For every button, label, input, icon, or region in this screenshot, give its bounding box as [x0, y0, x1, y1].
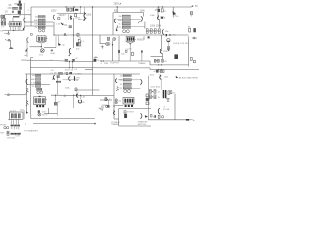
node dot x158.75 y7 — [158, 6, 159, 7]
ground J1 dark — [9, 48, 14, 49]
tube V2 right tab — [46, 38, 47, 40]
tube V11b curl right — [140, 79, 142, 84]
wire vertical x114 — [113, 74, 115, 119]
jack J1 dashes left — [5, 39, 6, 41]
resistor R12 — [75, 13, 77, 16]
tube socket S2 — [37, 35, 48, 48]
wire vertical x112.5 — [112, 41, 114, 62]
resistor RC4 — [35, 85, 40, 87]
svg-text:VOICE COIL RET.: VOICE COIL RET. — [173, 43, 190, 45]
tube socket S6 power — [8, 110, 24, 125]
tube V9 right tab — [46, 98, 47, 100]
tube socket V12 box — [123, 98, 134, 105]
wire right of V14 x24.1 — [23, 111, 25, 120]
svg-text:1M: 1M — [118, 16, 121, 18]
wire curl to stack — [118, 79, 123, 81]
svg-text:SWITCH: SWITCH — [138, 124, 147, 126]
tube V14 left-bottom tab — [8, 119, 9, 121]
resistor R50 wavy — [26, 88, 29, 93]
svg-text:5V: 5V — [195, 5, 198, 8]
resistor RC5 — [37, 88, 42, 90]
node dot x73.5 y35 — [73, 34, 74, 35]
node dot — [107, 99, 108, 100]
node dot x55.6 y95.2 — [55, 95, 56, 96]
node dot S2 pin — [41, 46, 42, 47]
tube socket S5 lower-mid — [123, 98, 134, 108]
capacitor CC4 round pair — [37, 91, 43, 94]
wire vertical x162.5 — [162, 53, 164, 59]
wire vertical x119 — [118, 36, 120, 61]
resistor stack B upper (x121.9-130.5 y15-33.5) — [118, 15, 145, 33]
resistor R10 dark — [73, 8, 75, 12]
wire x73.7 down — [73, 95, 75, 108]
wire y105.5 — [114, 105, 123, 107]
resistor RG4 — [154, 95, 156, 99]
wire plate line y13.7 — [57, 13, 86, 15]
svg-text:FUSE: FUSE — [0, 125, 6, 127]
svg-text:12AX7: 12AX7 — [59, 14, 67, 17]
wire grid line y22 — [25, 21, 54, 23]
resistor RG2 — [154, 90, 156, 94]
wire vertical x159.4 lower — [158, 19, 160, 28]
wire vertical x30 — [29, 58, 31, 114]
comp small A-mark — [64, 33, 66, 36]
tick above — [95, 56, 97, 58]
wire vertical x175 — [174, 94, 176, 120]
wire x108.3 stub — [107, 100, 109, 105]
comp dark x141 y50 — [141, 50, 142, 52]
wire pilot line y118.6 — [31, 118, 95, 120]
wire bus y69.5 right — [150, 69, 199, 71]
fuse circle pair — [4, 127, 9, 129]
tube V2b curl — [53, 15, 55, 20]
svg-text:12AX7: 12AX7 — [75, 72, 82, 75]
tube socket V9 box — [34, 97, 46, 105]
svg-text:TO HEATERS: TO HEATERS — [24, 129, 38, 132]
dark mark x144.5-148 y115-118 — [145, 115, 148, 118]
svg-text:1k: 1k — [97, 60, 99, 62]
small comp above — [38, 111, 40, 113]
potentiometer VOL6 — [4, 22, 6, 25]
wire vertical x144.9 — [144, 22, 146, 29]
node dots on line1 — [69, 61, 73, 62]
wire tone line y47.7 right — [44, 47, 56, 49]
svg-text:1M: 1M — [120, 76, 123, 78]
wire OT box right stub — [143, 13, 145, 17]
tube V4a arrow down — [116, 26, 118, 32]
node dots between comps — [149, 30, 158, 31]
wire cathode line y26 — [25, 25, 54, 27]
tube V6 curl small — [162, 29, 164, 34]
resistor RC2 — [35, 78, 40, 80]
tube V1 element bars — [10, 23, 20, 26]
ground sym — [101, 45, 103, 48]
capacitor CA5 round pair — [38, 29, 44, 32]
tube V2 bar stripes — [39, 37, 45, 41]
tube V12 element bars — [124, 99, 133, 103]
tube V1 bar stripes — [11, 23, 17, 26]
wire J3 left — [192, 37, 193, 39]
node dot x112.5 y44.8 — [112, 44, 113, 45]
wire vertical x56 — [55, 35, 57, 48]
comp dark omega x78-82.5 — [78, 100, 81, 103]
wire rect box top y108.5 — [119, 108, 151, 110]
tube V10b curl dark — [76, 94, 78, 98]
node dot x92.5 y7 — [92, 6, 93, 7]
resistor stack A (x38 y15..32) — [34, 15, 46, 32]
wire tone line y46.8 — [30, 46, 42, 48]
pilot lamp cluster — [38, 111, 41, 117]
jack J1b dashes — [4, 32, 5, 34]
node dot x54 y35 — [53, 34, 54, 35]
tube V7 center pin — [129, 44, 131, 61]
svg-text:1M: 1M — [35, 16, 38, 18]
resistor R32 — [189, 28, 191, 32]
wire J1 drop — [9, 40, 11, 47]
wire J2 lead — [10, 94, 27, 96]
comp on line x66-68 — [66, 73, 68, 75]
wire y43.7 — [100, 43, 105, 45]
tube socket V7 box — [126, 36, 134, 41]
wire bus y61 mid — [100, 60, 151, 62]
cap C12 — [77, 33, 79, 36]
svg-text:1k: 1k — [158, 97, 160, 99]
output jack J3 — [192, 37, 197, 39]
annotation arrow dark — [176, 76, 179, 78]
resistor R53 on bus striped — [58, 73, 62, 75]
tube V7 element bars — [127, 37, 134, 40]
tick x30.4 top — [30, 57, 33, 59]
svg-text:100k: 100k — [86, 14, 92, 17]
terminal strip right x146-149 y94-106 — [146, 94, 149, 105]
wire pin bus y30.5 — [3, 30, 25, 32]
node dot x95 y123.6 — [94, 123, 96, 125]
output terminal cluster x93.8-99 y56-62 — [94, 57, 97, 61]
tube V9 bar stripes — [36, 98, 44, 103]
wire jog x150 upper — [149, 61, 151, 65]
tube V1a curl top-left — [24, 18, 26, 23]
oval speaker symbol — [105, 42, 110, 45]
wire vertical x68.7 — [68, 14, 70, 20]
wire HT bus top — [31, 6, 191, 8]
comp dark bar x56-61 y81 — [56, 81, 61, 83]
comp marks left bottom — [125, 50, 127, 52]
tube V1 top pin — [12, 17, 14, 21]
wire vertical x31 — [30, 7, 32, 26]
node dot x161.4 y64.9 — [161, 64, 162, 65]
wire vertical x20 top-left — [19, 3, 21, 16]
potentiometer VOL3 — [2, 19, 3, 22]
svg-text:470k: 470k — [94, 57, 98, 59]
comp small x150.5 — [150, 114, 152, 117]
tube curl dark on x114 — [113, 110, 115, 114]
pot P2 circle — [167, 39, 170, 42]
wire stub y113.7 — [44, 113, 57, 115]
wire bus y67.8 — [30, 67, 150, 69]
wire V4b lead — [138, 21, 140, 23]
label stack A values — [34, 16, 39, 29]
wire stub y56.4 — [151, 55, 163, 57]
right edge cluster — [189, 28, 196, 32]
resistor R1 horizontal — [13, 7, 18, 9]
resistor RA4 pair — [38, 26, 45, 28]
capacitor C1 top-left small — [19, 1, 21, 3]
wire vertical x26.5 — [26, 74, 28, 113]
switch comp vertical — [7, 131, 9, 135]
tube V2a grid curl — [27, 38, 29, 43]
jack circles stacked x116.2 — [115, 99, 117, 104]
wire vertical x80.5 — [80, 7, 82, 14]
wire y79.8 — [63, 79, 80, 81]
resistor R51 wavy lower — [26, 101, 29, 106]
tube V1 pins below — [11, 26, 20, 30]
pot circle dark — [113, 38, 116, 41]
resistor stack C x35-42 y74-87 — [31, 74, 43, 94]
resistor RD4 — [123, 87, 131, 89]
node dots grid — [152, 91, 153, 97]
transistor-like dark curl — [84, 12, 86, 19]
tube V16 curl right — [140, 113, 142, 118]
transistor arrow x25.7-28 y111-113.7 — [26, 111, 28, 114]
potentiometer P1 — [40, 49, 44, 53]
wire vertical x72.5 — [72, 62, 74, 68]
wire vertical x58.5 short — [58, 35, 60, 43]
wire grid y84.5 — [27, 84, 50, 86]
capacitor CB5 round pair — [123, 30, 130, 33]
wire vertical x30.8 — [30, 114, 32, 119]
tube V14 stripes overlay — [12, 113, 20, 118]
capacitor dark on bus x166 — [166, 34, 167, 36]
wire hook arrow bus end — [191, 6, 193, 7]
wire y95.2 — [51, 94, 114, 96]
svg-text:1 2 3 4: 1 2 3 4 — [10, 110, 17, 112]
jack J1b stub up — [8, 31, 10, 33]
node dot under V7 — [130, 43, 131, 44]
resistor R2 vertical — [20, 7, 22, 10]
svg-text:1M: 1M — [32, 75, 35, 77]
transformer secondary bar — [11, 133, 21, 135]
wire vertical x148.3 — [147, 76, 149, 120]
comp dark top right of V7 — [148, 36, 150, 38]
tube V4a curl — [114, 19, 116, 23]
capacitor C11 on bus — [70, 8, 72, 11]
tube V17 curl dark — [158, 108, 160, 114]
svg-text:325V: 325V — [51, 10, 57, 13]
tube V2 base arc — [37, 42, 45, 43]
tube V7 base arc — [127, 42, 134, 43]
wire connector stack to V4b — [131, 19, 141, 21]
diode D1 — [51, 49, 53, 51]
resistor grid 2x2 x149.3-156 y89.5-98.6 — [149, 90, 156, 99]
svg-text:22k: 22k — [75, 9, 78, 11]
svg-text:OUTPUT: OUTPUT — [110, 62, 120, 64]
node dot x114 y106 — [113, 106, 114, 107]
wire vertical x161.3 — [160, 35, 162, 50]
label speaker dark — [98, 105, 108, 110]
labels bottom-left — [0, 125, 38, 140]
svg-text:470: 470 — [7, 7, 12, 10]
wire curve from Q30 — [174, 13, 177, 17]
tube V4b curl right — [141, 17, 143, 22]
wire stack right lower — [131, 88, 140, 90]
svg-text:16Ω: 16Ω — [104, 63, 108, 65]
wire vertical x92.6 lower — [92, 68, 94, 95]
wire bus y60 left — [22, 60, 94, 62]
capacitor dark x161 — [161, 17, 163, 19]
wire vertical x173.2 — [172, 7, 174, 18]
capacitor dark bar x74 — [74, 76, 75, 81]
wire top tick — [20, 109, 24, 111]
jack J1b circle — [8, 33, 10, 35]
diode DR2 dark — [124, 114, 126, 118]
comp x190-193 — [190, 57, 192, 60]
label under bus y60 — [21, 58, 78, 72]
ground under Q — [83, 20, 86, 21]
resistor RD2 — [123, 79, 131, 81]
resistor cluster x154-163 y59.2-62.2 — [154, 59, 163, 62]
resistor R60 wavy — [116, 87, 119, 91]
tube V9 pins below — [36, 105, 44, 107]
diode D2 triangle — [167, 98, 170, 101]
svg-text:6.3V: 6.3V — [15, 136, 20, 138]
wire bus y35 — [54, 34, 189, 36]
comp x167.5 y46.5-49 — [168, 47, 170, 49]
node dot x74.2 y7 — [74, 6, 75, 7]
potentiometer P1 wiper — [41, 49, 44, 52]
wire x55.6 down — [55, 95, 57, 102]
labels near — [104, 54, 146, 65]
transistor Q1 dark — [58, 43, 61, 46]
junction dots on buses — [53, 6, 163, 124]
wire y100 — [100, 99, 112, 101]
jack J2 circle — [7, 94, 9, 96]
tube socket S3 — [126, 36, 136, 61]
resistor RD1 — [123, 75, 131, 77]
capacitor C33 — [194, 28, 196, 32]
wire bias line y119.8 — [148, 119, 186, 121]
wire x117.2 bus drop — [116, 7, 118, 13]
node dot pin bus — [13, 30, 14, 31]
tube socket V2 box — [37, 36, 46, 42]
resistor RB3 — [122, 22, 130, 25]
wire x57.6 down — [57, 78, 59, 96]
diode DR1 — [124, 111, 126, 113]
comp dark x54-57.5 y102-105.5 — [54, 102, 57, 106]
tube V13 curl dark — [160, 75, 162, 80]
capacitor dark bar on x119 — [118, 50, 120, 53]
jack J3 circle — [193, 37, 195, 39]
top cluster x156-164 y69.8-72.5 — [156, 70, 164, 73]
tube V2 element bars — [38, 37, 46, 41]
comp pair above bus x65-67.5 — [65, 59, 68, 61]
tick at bottom — [24, 54, 27, 56]
node dot x66.1 y7 — [65, 6, 66, 7]
tube V7 right tab — [135, 39, 136, 41]
wire vertical x100 — [99, 35, 101, 44]
capacitor CD5 round pair — [124, 90, 131, 93]
input jack J2 — [5, 94, 27, 96]
node mark x31 y34 — [30, 34, 32, 36]
comp small x154.5 — [154, 115, 156, 118]
resistor RA2 pair — [38, 19, 45, 21]
wire vertical x158 — [157, 7, 159, 19]
tube V2 pin ticks above — [39, 34, 45, 37]
wire V1a vertical x24 — [23, 3, 25, 30]
coil top of x188.5 — [187, 36, 190, 39]
capacitor pair C31 — [158, 9, 163, 12]
potentiometer VOL1 — [1, 15, 3, 18]
wire vertical x144 — [143, 36, 145, 40]
wire x57.2 heater drop — [56, 106, 58, 116]
comp x168 y90.6-94.4 — [168, 91, 170, 95]
label stack C — [31, 75, 36, 88]
wire OT box left — [112, 13, 114, 36]
potentiometer VOL2 — [3, 15, 5, 18]
svg-text:115V AC: 115V AC — [7, 136, 16, 139]
wire rect box left x118.7 — [118, 109, 120, 127]
input jack J1 — [5, 39, 10, 47]
terminal T1 — [146, 94, 149, 97]
lower mid cluster y72-80 — [53, 72, 79, 80]
wire jog x150 lower — [149, 68, 151, 70]
comp x170.3 — [170, 91, 172, 94]
wire stack to V4b lower link — [131, 26, 145, 28]
wire vertical x161.2 — [160, 79, 162, 89]
svg-text:100k: 100k — [140, 10, 146, 13]
tube V5 curl — [157, 15, 159, 20]
comp cluster mid x125-133 y51-56 — [132, 52, 134, 55]
wire stub y69.3 — [85, 68, 93, 70]
node dot x161.4 y69.5 — [161, 69, 162, 70]
resistor RB2 — [122, 19, 130, 22]
svg-text:470k .05: 470k .05 — [65, 69, 74, 71]
arrow mark top A3 — [119, 3, 122, 5]
potentiometer VOL5 — [1, 22, 3, 25]
resistor RA3 pair — [38, 23, 45, 25]
resistor R61 striped — [105, 98, 107, 101]
resistor RA1 pair — [38, 15, 45, 17]
ground under pot — [167, 49, 170, 51]
wire corner y119 — [114, 118, 119, 120]
tube V11a curl — [115, 79, 117, 83]
tube V2 center pin — [40, 44, 42, 47]
wire vertical x69.4 — [68, 62, 70, 68]
tube V9 element bars — [35, 98, 45, 103]
tube V14 element bars — [11, 113, 21, 118]
wire squiggle under C32 — [190, 15, 192, 17]
tube socket V14 box — [9, 112, 23, 119]
wire heater bus y123.6 — [33, 123, 95, 125]
transistor dark curl x52.5-55.6 — [53, 75, 55, 79]
comp pair x69-71.5 y25.5-28 — [69, 26, 70, 28]
tube V9 top tick — [39, 96, 41, 97]
tube V3b curl dark — [69, 48, 71, 56]
small cluster near 102-116 y37-48 — [100, 35, 119, 61]
potentiometer VOL4 — [4, 19, 6, 22]
svg-text:TRANS: TRANS — [138, 62, 146, 65]
svg-text:100k 100k: 100k 100k — [150, 25, 162, 28]
capacitor C13 cluster — [76, 43, 80, 46]
resistor RD3 — [123, 83, 131, 85]
resistor R15 dark — [94, 59, 96, 62]
wire OT box top — [113, 12, 143, 14]
wire bus y74 — [25, 73, 140, 75]
wire vertical x92.5 — [92, 7, 94, 68]
wire y90 — [75, 89, 100, 91]
resistor R11 under V2b — [58, 18, 60, 20]
node dot x73.7 y95.2 — [73, 95, 74, 96]
svg-text:ADJUST BIAS HERE: ADJUST BIAS HERE — [179, 76, 199, 79]
